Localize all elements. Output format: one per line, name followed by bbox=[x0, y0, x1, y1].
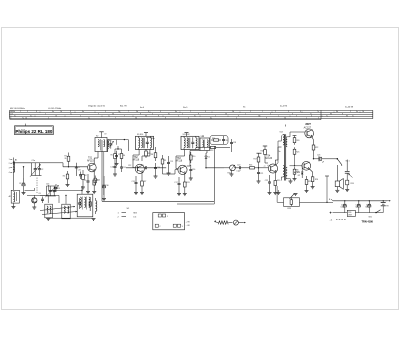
electrolytic C30 bbox=[102, 176, 109, 201]
wire can2 to T3 bbox=[176, 150, 185, 169]
wire node bbox=[68, 165, 70, 167]
wire T5 out to speaker line bbox=[313, 158, 314, 159]
transistor TS2 AF116 bbox=[133, 157, 145, 173]
svg-text:C8: C8 bbox=[58, 188, 60, 190]
supply wire mid bbox=[277, 186, 333, 203]
svg-text:R24: R24 bbox=[351, 183, 354, 185]
annotation text above table bbox=[10, 105, 354, 110]
svg-text:R14: R14 bbox=[212, 138, 215, 140]
capacitor C21 bbox=[257, 168, 264, 183]
svg-text:8b: 8b bbox=[330, 113, 332, 115]
trimmer C8 bbox=[54, 184, 60, 193]
svg-text:5: 5 bbox=[250, 111, 251, 113]
battery B1 9V bbox=[381, 200, 390, 213]
svg-text:8: 8 bbox=[70, 111, 71, 113]
svg-text:2: 2 bbox=[9, 163, 10, 165]
svg-text:C1b: C1b bbox=[46, 183, 49, 185]
capacitor C7 bbox=[115, 140, 121, 166]
S1 legend text bbox=[118, 208, 138, 219]
svg-text:3: 3 bbox=[288, 111, 289, 113]
resistor R4 bbox=[63, 171, 70, 187]
primary lower return bbox=[281, 177, 283, 181]
svg-text:C22: C22 bbox=[265, 180, 268, 182]
svg-text:5: 5 bbox=[48, 118, 49, 120]
svg-text:C26: C26 bbox=[366, 204, 369, 206]
svg-text:7: 7 bbox=[128, 111, 129, 113]
svg-text:C9: C9 bbox=[104, 134, 106, 136]
bus arrow right bbox=[387, 200, 391, 202]
svg-text:S11 S12: S11 S12 bbox=[183, 134, 190, 136]
svg-text:C24: C24 bbox=[341, 204, 344, 206]
diode D1 detector bbox=[205, 151, 210, 164]
wire R-column to T6 base bbox=[294, 156, 295, 166]
detector coil S13 bbox=[200, 136, 210, 151]
svg-text:4: 4 bbox=[178, 115, 179, 117]
svg-text:R4: R4 bbox=[63, 176, 65, 178]
osc coil box S4 bbox=[45, 204, 53, 218]
svg-text:R13: R13 bbox=[210, 150, 213, 152]
svg-text:R7: R7 bbox=[144, 181, 146, 183]
resistor R6 bbox=[120, 151, 125, 161]
svg-text:R5: R5 bbox=[111, 155, 113, 157]
svg-text:C16: C16 bbox=[192, 169, 195, 171]
svg-text:D2: D2 bbox=[298, 175, 300, 177]
jack resistor R24 bbox=[345, 180, 354, 191]
svg-text:C18: C18 bbox=[233, 142, 236, 144]
dial pointer lamp bbox=[233, 220, 245, 225]
wire into S5 bbox=[65, 195, 66, 204]
svg-text:C6: C6 bbox=[39, 193, 41, 195]
top tick above IF can 1 bbox=[144, 133, 155, 139]
osc transistor circle bbox=[27, 195, 48, 209]
terminal +4 bbox=[330, 219, 347, 221]
svg-text:7: 7 bbox=[115, 118, 116, 120]
svg-text:+1: +1 bbox=[264, 165, 266, 167]
svg-text:C10: C10 bbox=[110, 167, 113, 169]
svg-text:8: 8 bbox=[148, 111, 149, 113]
svg-text:C30: C30 bbox=[106, 185, 109, 187]
svg-text:3b: 3b bbox=[136, 111, 138, 113]
capacitor C14 bbox=[154, 163, 161, 178]
svg-text:5a-4b S8: 5a-4b S8 bbox=[345, 106, 354, 108]
svg-text:2k: 2k bbox=[65, 158, 67, 160]
svg-text:C14: C14 bbox=[157, 167, 160, 169]
driver transformer S14 bbox=[279, 132, 288, 181]
svg-text:R21: R21 bbox=[296, 152, 299, 154]
svg-text:8b: 8b bbox=[336, 111, 338, 113]
VDR resistor R31 bbox=[347, 210, 355, 216]
svg-text:TRN 4186: TRN 4186 bbox=[362, 221, 374, 224]
capacitor C18 bbox=[230, 139, 236, 152]
svg-text:AF116: AF116 bbox=[133, 159, 140, 162]
wire T3 area bbox=[202, 135, 204, 137]
wire volume to driver base bbox=[258, 167, 269, 168]
volume potentiometer R15 bbox=[224, 165, 235, 176]
resistor R21 bbox=[293, 147, 299, 156]
switch SK1 in supply bbox=[290, 193, 381, 218]
svg-text:C23: C23 bbox=[317, 154, 320, 156]
svg-text:3: 3 bbox=[270, 113, 271, 115]
svg-text:C31: C31 bbox=[78, 169, 81, 171]
T4 collector to transformer bbox=[275, 147, 281, 165]
resistor R18 bbox=[261, 146, 269, 163]
junction R17 top tee bbox=[257, 152, 262, 154]
electrolytic C3 bbox=[19, 178, 26, 195]
wire can1 to T2 bbox=[133, 150, 139, 168]
resistor R1 bbox=[65, 153, 70, 166]
second vertical near T1 bbox=[103, 152, 105, 196]
osc ground bus bbox=[46, 218, 96, 221]
svg-text:4a-4 R6: 4a-4 R6 bbox=[280, 106, 288, 108]
svg-text:4: 4 bbox=[160, 111, 161, 113]
IF transformer S9/S10 (can 1) bbox=[136, 134, 154, 149]
svg-text:C12: C12 bbox=[128, 165, 131, 167]
switch contact table S1 (band) bbox=[10, 110, 373, 119]
svg-text:8: 8 bbox=[158, 115, 159, 117]
T2 emitter R7 C13 bbox=[132, 173, 147, 195]
svg-text:640µF: 640µF bbox=[366, 207, 371, 209]
title box Philips 22 RL 180 bbox=[15, 124, 54, 135]
svg-text:C15: C15 bbox=[170, 161, 173, 163]
variable capacitor C1a (tuning gang) bbox=[30, 160, 47, 177]
svg-text:R24: R24 bbox=[315, 179, 318, 181]
capacitor C4 bbox=[75, 163, 80, 176]
svg-text:2: 2 bbox=[159, 226, 160, 228]
T5 emitter resistor R22 bbox=[312, 137, 318, 159]
svg-text:SK 1: SK 1 bbox=[346, 161, 350, 163]
svg-text:4: 4 bbox=[188, 118, 189, 120]
svg-text:S2: S2 bbox=[96, 136, 98, 138]
oscillator coil S2/S3 (can) bbox=[95, 132, 111, 152]
capacitor C11 bbox=[120, 163, 126, 172]
svg-text:+ 4: + 4 bbox=[330, 219, 333, 221]
svg-text:S14: S14 bbox=[280, 132, 283, 134]
svg-text:Philips 22 RL 180: Philips 22 RL 180 bbox=[15, 129, 52, 134]
resistor R10 bbox=[190, 152, 196, 163]
svg-text:7: 7 bbox=[98, 113, 99, 115]
resistor R22b bbox=[293, 167, 300, 181]
svg-text:1: 1 bbox=[278, 115, 279, 117]
svg-text:R26: R26 bbox=[147, 153, 150, 155]
capacitor C20 bbox=[234, 165, 246, 173]
svg-text:1: 1 bbox=[167, 216, 168, 218]
padder capacitor C6 bbox=[39, 193, 45, 203]
svg-text:8: 8 bbox=[165, 118, 166, 120]
transistor TS3 AF116 bbox=[176, 158, 188, 175]
resistor R20 bbox=[293, 136, 300, 145]
antenna coil A1 (MW) on ferrite rod bbox=[9, 158, 19, 191]
inset box switch detail bbox=[153, 213, 185, 230]
phone jack contacts bbox=[345, 162, 353, 180]
electrolytic C25 bbox=[356, 200, 361, 213]
svg-text:R10: R10 bbox=[192, 156, 195, 158]
capacitor C31 bbox=[78, 169, 82, 179]
svg-text:1: 1 bbox=[306, 118, 307, 120]
bus continuation bbox=[177, 201, 214, 204]
svg-text:2: 2 bbox=[20, 111, 21, 113]
svg-text:5a: 5a bbox=[279, 151, 281, 153]
wire S3 to trimmer C9 bbox=[108, 139, 129, 151]
svg-text:5b: 5b bbox=[232, 111, 234, 113]
svg-text:8µF: 8µF bbox=[356, 207, 359, 209]
resistor R8 bbox=[151, 150, 157, 162]
svg-text:8: 8 bbox=[342, 113, 343, 115]
svg-text:R25: R25 bbox=[97, 180, 100, 182]
resistor R5 bbox=[111, 151, 117, 162]
electrolytic C26 bbox=[366, 200, 371, 213]
wire gang to T1 base bbox=[47, 163, 87, 168]
svg-text:C19: C19 bbox=[225, 140, 228, 142]
resistor R2 bbox=[82, 170, 87, 184]
svg-text:S13: S13 bbox=[201, 136, 204, 138]
osc coil box S5 bbox=[62, 204, 70, 219]
svg-text:3: 3 bbox=[9, 167, 10, 169]
svg-text:R16: R16 bbox=[249, 164, 252, 166]
svg-text:5: 5 bbox=[105, 111, 106, 113]
VDR R29 loop bbox=[277, 190, 300, 210]
svg-text:D1: D1 bbox=[208, 157, 210, 159]
T4 collector feed to primary bbox=[275, 134, 283, 165]
T4 emitter R19 C22 bbox=[265, 172, 280, 195]
svg-text:R19: R19 bbox=[277, 180, 280, 182]
svg-text:3b: 3b bbox=[13, 111, 15, 113]
wire T6 base bbox=[290, 165, 303, 167]
capacitor C10 bbox=[110, 163, 117, 176]
svg-text:R6: R6 bbox=[123, 155, 125, 157]
box3 internal parts bbox=[78, 197, 91, 211]
svg-text:C25: C25 bbox=[356, 204, 359, 206]
svg-text:6: 6 bbox=[311, 115, 312, 117]
ground bus wire bbox=[102, 140, 214, 201]
electrolytic C24 bbox=[341, 200, 347, 213]
svg-text:C13: C13 bbox=[132, 181, 135, 183]
transistor TS5 AC127 bbox=[304, 122, 314, 138]
resistor R9 bbox=[161, 155, 166, 171]
svg-text:100µF: 100µF bbox=[341, 207, 346, 209]
wire detector to volume bbox=[205, 163, 224, 169]
svg-text:9: 9 bbox=[238, 115, 239, 117]
wire T2->can2 path bbox=[156, 147, 179, 174]
svg-text:6: 6 bbox=[300, 111, 301, 113]
svg-text:2: 2 bbox=[275, 111, 276, 113]
svg-text:LG 145-270kHz: LG 145-270kHz bbox=[48, 108, 61, 110]
svg-text:R22: R22 bbox=[315, 147, 318, 149]
switch wiper arrow 1 bbox=[40, 206, 75, 211]
svg-text:3b: 3b bbox=[145, 115, 147, 117]
resistor R23 bbox=[305, 176, 312, 193]
svg-text:3b: 3b bbox=[112, 113, 114, 115]
svg-text:R9: R9 bbox=[164, 160, 166, 162]
inset box annotation bbox=[186, 221, 191, 226]
resistor R16 bbox=[246, 164, 258, 169]
wire osc top-left bbox=[40, 195, 59, 203]
svg-text:1b: 1b bbox=[25, 118, 27, 120]
svg-text:5: 5 bbox=[45, 113, 46, 115]
wire T3 collector to S13 bbox=[187, 151, 200, 167]
osc coil S8 bbox=[96, 198, 97, 214]
tick labels near driver bbox=[264, 165, 269, 168]
svg-text:5b: 5b bbox=[284, 118, 286, 120]
svg-text:2: 2 bbox=[236, 118, 237, 120]
svg-text:R17: R17 bbox=[254, 159, 257, 161]
svg-text:R23: R23 bbox=[308, 181, 311, 183]
svg-text:b: b bbox=[10, 118, 11, 120]
svg-text:C20: C20 bbox=[237, 165, 240, 167]
svg-text:LG: LG bbox=[134, 217, 137, 219]
svg-text:R18: R18 bbox=[261, 151, 264, 153]
svg-text:µF: µF bbox=[322, 162, 324, 164]
svg-text:8: 8 bbox=[36, 111, 37, 113]
svg-text:AC126: AC126 bbox=[265, 157, 273, 160]
transformer core top tick bbox=[284, 125, 286, 127]
svg-text:3: 3 bbox=[296, 115, 297, 117]
jack switch lead bbox=[346, 160, 348, 163]
svg-text:7: 7 bbox=[124, 115, 125, 117]
svg-text:C11: C11 bbox=[123, 167, 126, 169]
osc block top wires bbox=[25, 185, 83, 194]
capacitor C16 bbox=[189, 165, 195, 180]
top tick above IF can 2 bbox=[185, 133, 189, 137]
svg-text:R20: R20 bbox=[296, 140, 299, 142]
svg-text:MG: MG bbox=[134, 213, 138, 215]
trimmer C9 bbox=[104, 134, 113, 150]
lower supply wire bbox=[330, 212, 384, 214]
svg-text:3: 3 bbox=[350, 111, 351, 113]
svg-text:9: 9 bbox=[205, 111, 206, 113]
svg-text:A2: A2 bbox=[9, 195, 11, 198]
transformer secondary to T5 base bbox=[287, 132, 305, 137]
svg-text:C4: C4 bbox=[77, 167, 79, 169]
svg-text:C2: C2 bbox=[41, 169, 43, 171]
osc coil pack S6/S7 bbox=[77, 194, 93, 217]
resistor R17 bbox=[254, 155, 260, 168]
svg-text:AC127: AC127 bbox=[304, 126, 312, 129]
coupling capacitor C23 bbox=[314, 154, 338, 163]
T6 collector down bbox=[310, 169, 319, 189]
ground under R2 bbox=[81, 184, 85, 189]
T1 emitter network R3 C5 bbox=[84, 171, 98, 194]
svg-text:9: 9 bbox=[198, 113, 199, 115]
transistor TS6 AC128 bbox=[294, 161, 311, 174]
svg-text:1b: 1b bbox=[362, 111, 364, 113]
T1 collector wire bbox=[94, 152, 98, 165]
svg-text:C21: C21 bbox=[260, 173, 263, 175]
svg-text:AC128: AC128 bbox=[294, 171, 300, 174]
oscillator gang C1b bbox=[45, 183, 56, 197]
wire to output jack bbox=[337, 158, 338, 159]
wire osc section bbox=[13, 184, 48, 186]
svg-text:6: 6 bbox=[292, 113, 293, 115]
svg-text:4: 4 bbox=[9, 172, 10, 174]
resistor R26 bbox=[145, 149, 151, 158]
svg-text:0.1µF: 0.1µF bbox=[237, 171, 241, 173]
svg-text:3b: 3b bbox=[135, 118, 137, 120]
jack switch SK2 contact bbox=[337, 158, 350, 166]
svg-text:3: 3 bbox=[182, 226, 183, 228]
AGC resistor R13 bbox=[196, 146, 230, 152]
IF transformer S11/S12 (can 2) bbox=[181, 134, 199, 149]
wire base bias T2 bbox=[115, 146, 122, 163]
svg-text:8b: 8b bbox=[346, 115, 348, 117]
svg-text:5: 5 bbox=[80, 115, 81, 117]
svg-text:1: 1 bbox=[262, 111, 263, 113]
svg-text:3: 3 bbox=[318, 118, 319, 120]
T6 bias diode D2 bbox=[298, 166, 304, 178]
wire speaker return to supply bbox=[325, 176, 329, 202]
supply bus bbox=[329, 199, 387, 201]
svg-text:AF116: AF116 bbox=[176, 159, 183, 162]
svg-text:2: 2 bbox=[190, 111, 191, 113]
capacitor C15 bbox=[167, 156, 174, 175]
svg-text:4: 4 bbox=[152, 113, 153, 115]
can1 secondary to T2 collector bbox=[142, 150, 150, 162]
svg-text:AF115: AF115 bbox=[87, 159, 94, 162]
antenna coil A2 (LW) bbox=[9, 190, 20, 208]
svg-text:3: 3 bbox=[27, 111, 28, 113]
svg-text:8: 8 bbox=[140, 113, 141, 115]
svg-text:1b: 1b bbox=[60, 111, 62, 113]
svg-text:C3: C3 bbox=[19, 183, 21, 185]
svg-text:R8: R8 bbox=[151, 154, 153, 156]
svg-text:Volgorde stand S1: Volgorde stand S1 bbox=[88, 105, 106, 108]
transistor TS4 AC126 bbox=[265, 155, 278, 173]
speaker LS bbox=[335, 165, 343, 193]
transformer secondary lower tap bbox=[287, 179, 292, 183]
dial cord spring bbox=[214, 220, 232, 224]
svg-text:SK1: SK1 bbox=[369, 216, 372, 218]
resistor R25 bbox=[94, 176, 100, 186]
mechanical link (dashed) tuning gang bbox=[36, 178, 38, 194]
svg-text:5b: 5b bbox=[225, 113, 227, 115]
drawing number TRN 4186 bbox=[362, 221, 374, 224]
svg-text:1: 1 bbox=[245, 113, 246, 115]
svg-text:9: 9 bbox=[266, 118, 267, 120]
svg-text:C17: C17 bbox=[174, 182, 177, 184]
T3 emitter R11 C17 bbox=[174, 174, 189, 196]
wire left column bbox=[23, 166, 24, 178]
svg-text:C5: C5 bbox=[84, 180, 86, 182]
svg-text:+ 9V: + 9V bbox=[186, 221, 191, 223]
filter loop R14 C19 bbox=[210, 136, 228, 145]
svg-text:R2: R2 bbox=[84, 175, 86, 177]
svg-text:1: 1 bbox=[9, 159, 10, 161]
capacitor C12 bbox=[126, 165, 166, 169]
switch wiper arrow 2 bbox=[42, 211, 77, 215]
wire antenna to tuning capacitor bbox=[13, 162, 32, 163]
svg-text:TS1: TS1 bbox=[88, 158, 93, 160]
svg-text:R11: R11 bbox=[187, 182, 190, 184]
wire R17 top bbox=[258, 153, 260, 155]
svg-text:2: 2 bbox=[215, 115, 216, 117]
svg-text:− 0V: − 0V bbox=[186, 225, 191, 227]
svg-text:2: 2 bbox=[182, 113, 183, 115]
svg-text:S9 S10: S9 S10 bbox=[137, 134, 143, 136]
svg-text:MG 510-1620kHz: MG 510-1620kHz bbox=[10, 108, 25, 110]
svg-text:1b: 1b bbox=[55, 115, 57, 117]
svg-text:Bat. 9V: Bat. 9V bbox=[120, 105, 127, 108]
transistor TS1 AF115 bbox=[87, 158, 96, 172]
